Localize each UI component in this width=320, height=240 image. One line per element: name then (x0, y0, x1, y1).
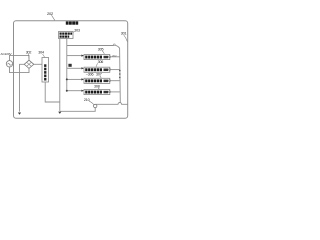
leader 303 (73, 31, 75, 34)
svg-text:302: 302 (26, 50, 32, 54)
branch wire to row 1 (67, 55, 82, 57)
AC source (6, 61, 12, 67)
branch wire to row 3 (67, 78, 82, 80)
svg-text:210: 210 (84, 98, 90, 102)
svg-text:308: 308 (94, 85, 100, 89)
wire circle to right edge with hop over bus (95, 103, 127, 105)
outer loop wire (DC bus top, right edge, bottom edge, left edge) (14, 21, 128, 119)
module row 1 (84, 55, 110, 60)
bus title text (bold CJK blobs) (66, 21, 78, 24)
wire bridge left vertex down to bottom arrow (20, 64, 25, 111)
leader 202 (52, 15, 55, 20)
arrowhead at bottom of left leg (58, 112, 61, 114)
branch wire to row 4 (67, 90, 82, 92)
row 3 right connector (109, 80, 111, 82)
leader 307 (100, 76, 102, 78)
leader 301 (124, 35, 128, 42)
svg-text:202: 202 (112, 54, 117, 58)
bottom wire from left-leg arrow to loop circle (60, 108, 95, 112)
wire 303 leg to right bus (top) (67, 45, 114, 47)
wire AC top to bridge top (10, 55, 30, 60)
left leg of 303 down to bottom arrow (59, 39, 61, 111)
leader 302 (28, 54, 30, 59)
right leg of 303 (module feed bus) (66, 39, 68, 91)
junction block on row2 branch (68, 64, 71, 67)
module row 3 (84, 78, 110, 83)
wire charger bottom to junction (45, 82, 60, 102)
row 1 right connector (109, 56, 111, 58)
leader 306 (96, 63, 98, 67)
svg-text:202: 202 (47, 11, 54, 16)
svg-text:301: 301 (121, 31, 127, 35)
svg-text:~306: ~306 (86, 73, 94, 77)
wire bridge right vertex to charger (34, 63, 42, 65)
leader 308 (98, 88, 100, 90)
junction dot row3 (66, 78, 68, 80)
sampling box 303 (59, 32, 74, 39)
row 2 right connector (109, 69, 111, 71)
svg-text:304: 304 (38, 50, 44, 54)
bridge rectifier 302 (24, 60, 34, 68)
leader 304 (43, 54, 45, 57)
wire AC bottom to bridge bottom (10, 67, 30, 73)
charger box 304 (42, 58, 49, 83)
loop circle 210 (94, 104, 97, 107)
branch wire to row 2 (67, 67, 82, 69)
arrowhead down at bottom-left (18, 113, 21, 115)
ellipsis dots on right bus (119, 70, 121, 78)
junction dot row4 (66, 90, 68, 92)
row 4 right connector (109, 91, 111, 93)
svg-text:307: 307 (96, 73, 102, 77)
leader 305 (102, 51, 104, 54)
module row 4 (84, 90, 110, 95)
svg-text:303: 303 (74, 28, 80, 32)
leader 210 (89, 101, 94, 105)
module row 2 (84, 67, 110, 72)
svg-text:306: 306 (98, 60, 104, 64)
